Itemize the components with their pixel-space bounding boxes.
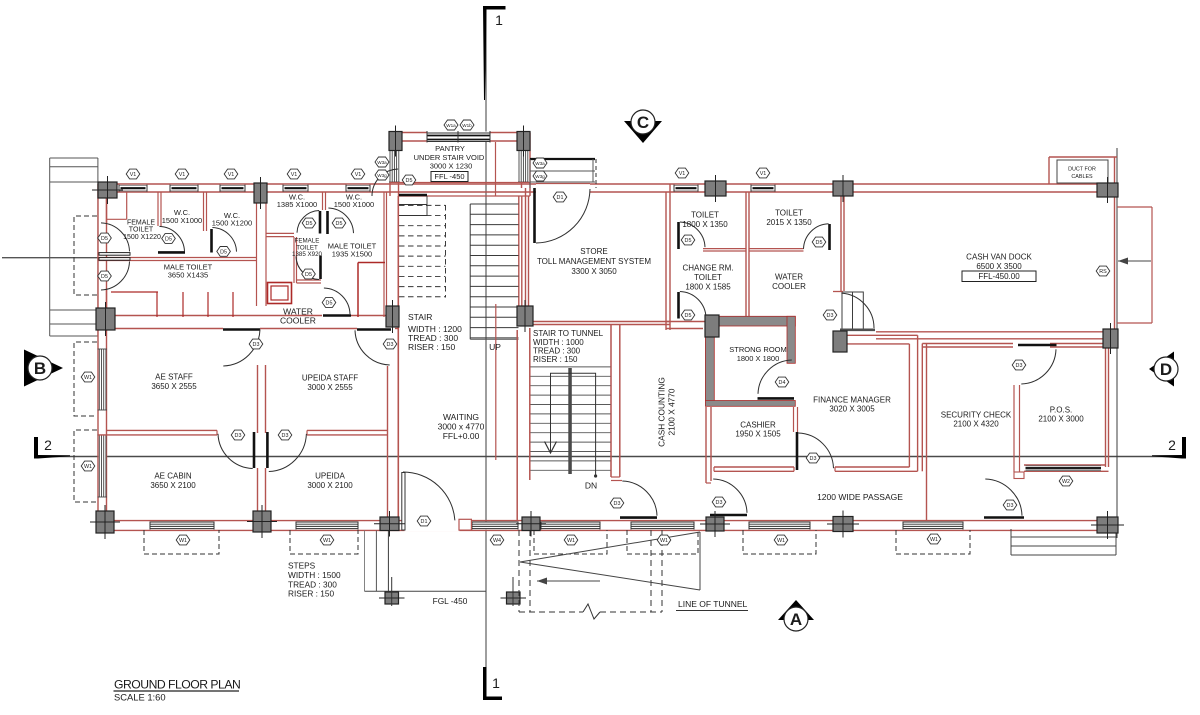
svg-text:D: D	[1160, 360, 1172, 379]
svg-text:W3g: W3g	[535, 174, 545, 179]
svg-text:B: B	[34, 359, 46, 378]
svg-text:CASHIER: CASHIER	[740, 421, 776, 430]
svg-text:D5: D5	[685, 313, 692, 319]
svg-text:FEMALE: FEMALE	[295, 238, 320, 245]
svg-text:TOILET: TOILET	[775, 209, 803, 218]
svg-text:TOILET: TOILET	[694, 273, 722, 282]
svg-text:V1: V1	[679, 171, 686, 177]
svg-text:3650 X1435: 3650 X1435	[168, 271, 208, 280]
svg-text:CHANGE RM.: CHANGE RM.	[682, 264, 733, 273]
svg-text:W1: W1	[660, 538, 668, 544]
svg-text:W1: W1	[179, 538, 187, 544]
svg-text:6500 X 3500: 6500 X 3500	[976, 262, 1022, 271]
svg-text:3000 x 4770: 3000 x 4770	[438, 422, 485, 432]
svg-text:CASH VAN DOCK: CASH VAN DOCK	[966, 253, 1032, 262]
svg-text:1800 X 1800: 1800 X 1800	[737, 354, 780, 363]
svg-text:FINANCE MANAGER: FINANCE MANAGER	[813, 396, 891, 405]
svg-text:D3: D3	[282, 433, 289, 439]
svg-text:D5: D5	[306, 221, 313, 227]
svg-text:RS: RS	[1099, 269, 1107, 275]
svg-text:UPEIDA STAFF: UPEIDA STAFF	[302, 374, 358, 383]
svg-text:1385 X1000: 1385 X1000	[277, 200, 317, 209]
svg-text:V1: V1	[130, 172, 137, 178]
svg-text:D5: D5	[326, 300, 333, 306]
svg-text:SECURITY CHECK: SECURITY CHECK	[941, 411, 1012, 420]
svg-text:CABLES: CABLES	[1071, 174, 1093, 180]
svg-text:1200 WIDE PASSAGE: 1200 WIDE PASSAGE	[817, 492, 903, 502]
svg-text:1800 X 1350: 1800 X 1350	[682, 220, 728, 229]
svg-text:STEPS: STEPS	[288, 561, 316, 571]
svg-text:W1b: W1b	[462, 123, 472, 128]
svg-text:AE CABIN: AE CABIN	[154, 472, 192, 481]
svg-text:A: A	[790, 610, 802, 629]
svg-text:D5: D5	[336, 221, 343, 227]
svg-text:2100 X 3000: 2100 X 3000	[1038, 415, 1084, 424]
svg-text:2015 X 1350: 2015 X 1350	[766, 218, 812, 227]
svg-text:2: 2	[44, 437, 52, 453]
svg-text:1500 X1000: 1500 X1000	[334, 200, 374, 209]
svg-text:COOLER: COOLER	[280, 316, 316, 326]
svg-text:STORE: STORE	[580, 247, 607, 256]
svg-text:W3a: W3a	[377, 160, 387, 165]
svg-text:FFL+0.00: FFL+0.00	[443, 431, 480, 441]
svg-text:D3: D3	[387, 342, 394, 348]
svg-text:RISER : 150: RISER : 150	[533, 355, 578, 364]
svg-text:3650 X 2555: 3650 X 2555	[151, 382, 197, 391]
svg-text:WAITING: WAITING	[443, 412, 479, 422]
svg-text:UPEIDA: UPEIDA	[315, 472, 345, 481]
svg-text:D3: D3	[716, 500, 723, 506]
svg-text:W1: W1	[84, 375, 92, 381]
svg-text:V1: V1	[179, 172, 186, 178]
svg-text:STAIR: STAIR	[408, 312, 432, 322]
svg-text:D1: D1	[421, 519, 428, 525]
svg-text:D3: D3	[1016, 363, 1023, 369]
svg-text:SCALE 1:60: SCALE 1:60	[114, 692, 166, 703]
svg-text:TOLL MANAGEMENT SYSTEM: TOLL MANAGEMENT SYSTEM	[537, 257, 651, 266]
svg-text:3000 X 2100: 3000 X 2100	[307, 481, 353, 490]
svg-text:D5: D5	[685, 238, 692, 244]
svg-text:CASH COUNTING: CASH COUNTING	[657, 377, 667, 447]
svg-text:D5: D5	[220, 249, 227, 255]
svg-text:V1: V1	[228, 172, 235, 178]
svg-text:WATER: WATER	[775, 273, 803, 282]
svg-text:3000 X 2555: 3000 X 2555	[307, 383, 353, 392]
svg-text:D1: D1	[557, 195, 564, 201]
svg-text:DUCT FOR: DUCT FOR	[1068, 167, 1096, 173]
svg-text:W1: W1	[567, 538, 575, 544]
svg-text:D3: D3	[614, 501, 621, 507]
svg-text:W4: W4	[493, 538, 501, 544]
svg-text:1: 1	[492, 675, 500, 691]
svg-text:1800 X 1585: 1800 X 1585	[685, 283, 731, 292]
svg-text:STAIR TO TUNNEL: STAIR TO TUNNEL	[533, 329, 604, 338]
svg-text:V1: V1	[291, 172, 298, 178]
svg-text:1950 X 1505: 1950 X 1505	[735, 430, 781, 439]
svg-text:P.O.S.: P.O.S.	[1050, 406, 1073, 415]
svg-text:1500 X1000: 1500 X1000	[162, 216, 202, 225]
svg-text:3650 X 2100: 3650 X 2100	[150, 481, 196, 490]
svg-text:D3: D3	[1007, 503, 1014, 509]
svg-text:1: 1	[495, 12, 503, 28]
svg-text:1500 X1220: 1500 X1220	[123, 234, 161, 241]
svg-text:C: C	[637, 113, 649, 132]
svg-text:2100 X 4320: 2100 X 4320	[953, 420, 999, 429]
svg-text:FFL-450.00: FFL-450.00	[978, 272, 1020, 281]
svg-text:STRONG ROOM: STRONG ROOM	[729, 345, 787, 354]
svg-text:2: 2	[1168, 437, 1176, 453]
svg-text:D3: D3	[810, 456, 817, 462]
svg-text:W1: W1	[323, 538, 331, 544]
svg-text:V1: V1	[760, 171, 767, 177]
svg-text:D5: D5	[165, 236, 172, 242]
svg-text:W1: W1	[930, 537, 938, 543]
svg-text:3000 X 1230: 3000 X 1230	[430, 162, 473, 171]
svg-text:D3: D3	[827, 313, 834, 319]
svg-text:UP: UP	[489, 342, 501, 352]
svg-text:1500 X1200: 1500 X1200	[212, 219, 252, 228]
svg-text:GROUND FLOOR PLAN: GROUND FLOOR PLAN	[114, 677, 240, 691]
svg-text:FFL -450: FFL -450	[434, 172, 464, 181]
svg-text:D3: D3	[235, 433, 242, 439]
svg-text:RISER : 150: RISER : 150	[408, 342, 456, 352]
svg-text:W1a: W1a	[446, 123, 456, 128]
svg-text:LINE OF TUNNEL: LINE OF TUNNEL	[678, 599, 748, 609]
svg-text:AE STAFF: AE STAFF	[155, 373, 193, 382]
svg-text:W2: W2	[1062, 479, 1070, 485]
svg-text:D5: D5	[101, 236, 108, 242]
svg-text:W1: W1	[84, 464, 92, 470]
svg-text:D5: D5	[101, 274, 108, 280]
svg-text:D5: D5	[816, 240, 823, 246]
svg-text:3020 X 3005: 3020 X 3005	[829, 405, 875, 414]
svg-text:FEMALE: FEMALE	[127, 220, 155, 227]
svg-text:TOILET: TOILET	[129, 227, 154, 234]
svg-text:COOLER: COOLER	[772, 282, 806, 291]
svg-text:1935 X1500: 1935 X1500	[332, 250, 372, 259]
svg-text:D5: D5	[406, 178, 413, 184]
svg-text:2100 X 4770: 2100 X 4770	[667, 388, 677, 435]
svg-text:DN: DN	[585, 481, 597, 491]
svg-text:PANTRY: PANTRY	[435, 144, 465, 153]
svg-text:W1: W1	[777, 538, 785, 544]
svg-text:FGL -450: FGL -450	[433, 596, 468, 606]
svg-text:RISER : 150: RISER : 150	[288, 589, 335, 599]
svg-text:D5: D5	[305, 272, 312, 278]
svg-text:1385 X920: 1385 X920	[292, 251, 322, 258]
svg-text:W3a: W3a	[535, 161, 545, 166]
svg-text:3300 X 3050: 3300 X 3050	[571, 267, 617, 276]
svg-text:D3: D3	[253, 342, 260, 348]
svg-text:TOILET: TOILET	[691, 211, 719, 220]
svg-text:D4: D4	[779, 380, 786, 386]
svg-text:V1: V1	[355, 172, 362, 178]
svg-text:W3g: W3g	[377, 173, 387, 178]
